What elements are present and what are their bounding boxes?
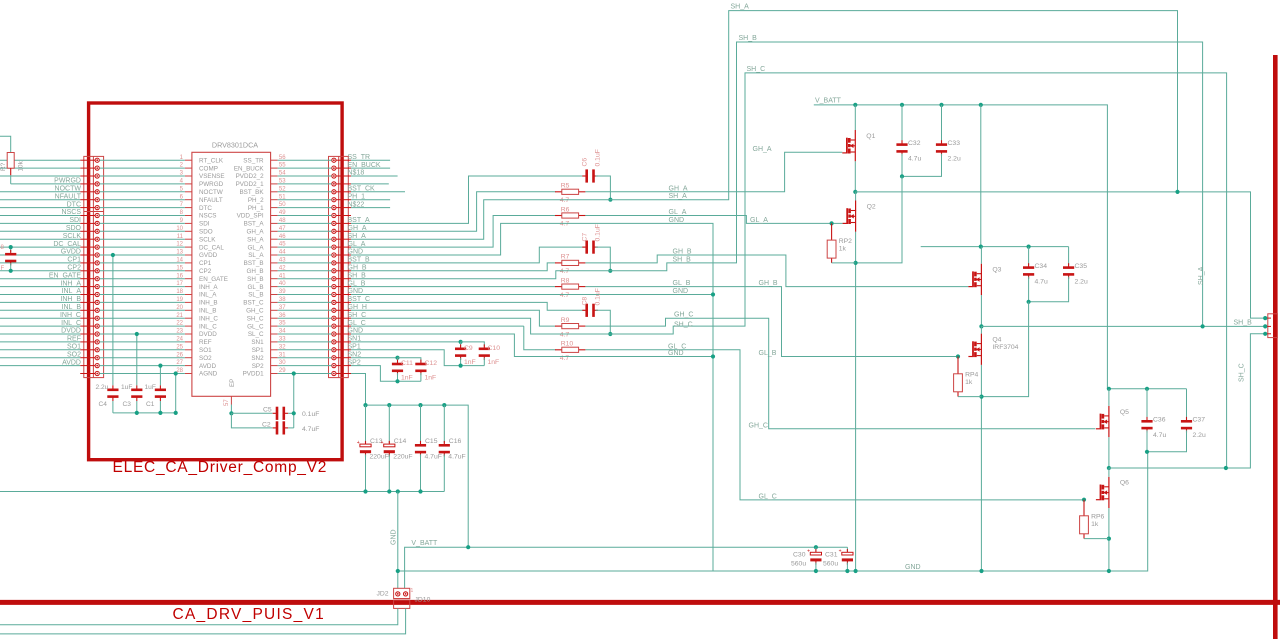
- svg-text:PWRGD: PWRGD: [54, 178, 81, 185]
- svg-text:V_BATT: V_BATT: [815, 98, 842, 105]
- svg-text:ELEC_CA_Driver_Comp_V2: ELEC_CA_Driver_Comp_V2: [113, 459, 328, 476]
- resistor R5 4.7: [555, 191, 562, 193]
- svg-text:Q5: Q5: [1120, 409, 1129, 416]
- capacitor C14 plates: [388, 441, 390, 446]
- wire EP node: [230, 405, 232, 414]
- wire stub net SS_TR: [351, 159, 390, 161]
- svg-text:1: 1: [411, 588, 414, 594]
- connector JP1 pin row 26: [80, 357, 95, 359]
- wire GL_C row: [351, 325, 524, 327]
- svg-text:SDI: SDI: [199, 221, 210, 228]
- connector JP1 pin row 15: [80, 270, 95, 272]
- wire stub net EN_BUCK: [351, 167, 390, 169]
- wire Q1 source to SH_A: [854, 161, 856, 192]
- IC pin 38 BST_C: [271, 301, 278, 303]
- wire net row25 left: [0, 349, 80, 351]
- svg-text:CP2: CP2: [199, 268, 212, 275]
- svg-text:BST_BK: BST_BK: [239, 189, 264, 196]
- svg-text:C11: C11: [401, 360, 413, 367]
- svg-text:NSCS: NSCS: [199, 213, 217, 220]
- wire JP1-23 to IC pin 23: [99, 333, 184, 335]
- capacitor C11 plates: [397, 360, 399, 365]
- IC pin 12 DC_CAL: [185, 246, 192, 248]
- connector JD2/JD10: [394, 588, 410, 598]
- wire SP2 rail: [351, 366, 421, 382]
- capacitor C?8 left edge: [10, 247, 12, 252]
- svg-text:R?: R?: [0, 162, 7, 171]
- IC pin 53 PVDD2_1: [271, 183, 278, 185]
- svg-text:GND: GND: [668, 350, 684, 357]
- resistor RP4 1k: [957, 357, 959, 374]
- capacitor C15 plates: [420, 441, 422, 446]
- wire Q4 drain: [980, 326, 982, 333]
- svg-text:4.7: 4.7: [560, 221, 570, 228]
- capacitor C? left edge plates: [10, 250, 12, 255]
- transistor Q2: [843, 201, 856, 232]
- wire net row19 left: [0, 301, 80, 303]
- svg-text:GVDD: GVDD: [199, 252, 218, 259]
- connector JP2 pin row 46: [336, 238, 351, 240]
- node Q4 source/RP4/C34gnd: [979, 395, 983, 399]
- wire RP4 bottom: [958, 396, 982, 398]
- wire Q6 drain: [1108, 468, 1110, 477]
- wire GND JD2 drop: [397, 492, 399, 589]
- wire net row21 left: [0, 317, 80, 319]
- svg-text:BST_B: BST_B: [244, 260, 264, 267]
- svg-text:AVDD: AVDD: [62, 359, 81, 366]
- wire JP1-1 to IC pin 1: [99, 159, 184, 161]
- svg-text:SL_A: SL_A: [248, 252, 264, 259]
- wire C7 to SH_B: [596, 247, 611, 271]
- svg-text:DTC: DTC: [67, 201, 81, 208]
- svg-text:4.7u: 4.7u: [1035, 279, 1048, 286]
- IC pin 34 SL_C: [271, 333, 278, 335]
- svg-text:R7: R7: [561, 254, 570, 261]
- IC pin 32 SP1: [271, 349, 278, 351]
- wire net row26 left: [0, 357, 80, 359]
- wire JP1-11 to IC pin 11: [99, 238, 184, 240]
- node EP junction: [229, 411, 233, 415]
- connector JP2 pin row 32: [336, 349, 351, 351]
- node Q1 drain: [853, 103, 857, 107]
- wire JP1-3 to IC pin 3: [99, 175, 184, 177]
- connector JP1 pin row 2: [80, 167, 95, 169]
- svg-text:GH_A: GH_A: [753, 146, 772, 153]
- capacitor C32 4.7u: [901, 105, 903, 142]
- wire GL_A to Q2 gate: [585, 216, 842, 224]
- wire Q2 source down to GND rail: [855, 232, 857, 571]
- svg-text:560u: 560u: [791, 561, 806, 568]
- node AGND tap: [174, 371, 178, 375]
- wire SH_B phase line: [981, 325, 1265, 327]
- wire net row24 left: [0, 341, 80, 343]
- connector JP2 pin row 52: [336, 191, 351, 193]
- svg-text:SP1: SP1: [252, 347, 264, 354]
- resistor R8 4.7: [555, 286, 562, 288]
- wire GND_A to rail: [351, 223, 713, 571]
- IC pin 24 REF: [185, 341, 192, 343]
- svg-text:SCLK: SCLK: [63, 233, 82, 240]
- svg-text:INH_C: INH_C: [199, 315, 218, 322]
- IC pin 49 VDD_SPI: [271, 215, 278, 217]
- node C5 right: [292, 411, 296, 415]
- node SH_B phase: [979, 324, 983, 328]
- wire JD10 bottom exits: [0, 608, 398, 624]
- svg-text:Q1: Q1: [866, 133, 875, 140]
- svg-text:R9: R9: [561, 317, 570, 324]
- IC pin 56 SS_TR: [271, 159, 278, 161]
- svg-text:4.7u: 4.7u: [1153, 432, 1166, 439]
- node C8/SH_C: [608, 332, 612, 336]
- svg-text:4.7uF: 4.7uF: [448, 454, 465, 461]
- wire JP1-21 to IC pin 21: [99, 317, 184, 319]
- resistor R9 4.7: [555, 325, 562, 327]
- connector JP1 pin row 13: [80, 254, 95, 256]
- svg-text:BST_C: BST_C: [243, 300, 264, 307]
- node GND_C: [711, 354, 715, 358]
- IC pin 7 DTC: [185, 207, 192, 209]
- wire SP1 rail: [351, 350, 484, 366]
- svg-text:NSCS: NSCS: [62, 209, 82, 216]
- capacitor C14 220uF: [387, 403, 391, 407]
- wire stub net unnamed: [351, 183, 389, 185]
- svg-text:C6: C6: [582, 158, 589, 167]
- svg-text:GND: GND: [669, 217, 685, 224]
- wire SH_A loop via top: [351, 11, 1178, 240]
- svg-text:SH_B: SH_B: [247, 276, 263, 283]
- wire net row2 left: [0, 167, 80, 169]
- svg-text:CP1: CP1: [67, 257, 81, 264]
- svg-text:EN_BUCK: EN_BUCK: [348, 162, 381, 169]
- connector JP1 pin row 5: [80, 191, 95, 193]
- svg-text:R8: R8: [561, 277, 570, 284]
- svg-text:SDI: SDI: [69, 217, 81, 224]
- wire JP1-12 to IC pin 12: [99, 246, 184, 248]
- IC pin 42 GH_B: [271, 270, 278, 272]
- wire JP1-27 to IC pin 27: [99, 365, 184, 367]
- IC pin 40 GL_B: [271, 286, 278, 288]
- wire JP1-9 to IC pin 9: [99, 222, 184, 224]
- wire net row1 left: [0, 159, 80, 161]
- wire GL_B to R8: [351, 286, 556, 288]
- IC pin 37 GH_C: [271, 309, 278, 311]
- svg-text:BST_CK: BST_CK: [348, 186, 376, 193]
- svg-text:SO1: SO1: [199, 347, 212, 354]
- svg-text:GH_A: GH_A: [246, 229, 264, 236]
- svg-text:SH_A: SH_A: [731, 4, 750, 11]
- node C11 bottom: [395, 379, 399, 383]
- wire net row6 left: [0, 199, 80, 201]
- wire SN1 to C9: [351, 341, 461, 343]
- connector JP2 pin row 45: [336, 246, 351, 248]
- connector JP2 pin row 47: [336, 230, 351, 232]
- wire JP1-24 to IC pin 24: [99, 341, 184, 343]
- node C34 top: [1027, 245, 1031, 249]
- connector JP1 pin row 14: [80, 262, 95, 264]
- wire SH_C phase line: [1109, 334, 1265, 468]
- connector JP1 pin row 6: [80, 199, 95, 201]
- IC pin 18 INL_A: [185, 294, 192, 296]
- IC pin 23 DVDD: [185, 333, 192, 335]
- svg-text:C3: C3: [123, 401, 132, 408]
- transistor Q5: [1096, 406, 1109, 437]
- wire net row8 left: [0, 215, 80, 217]
- node Q2 gnd rail: [854, 569, 858, 573]
- wire stub net N$18: [351, 175, 398, 177]
- svg-text:2.2u: 2.2u: [1193, 432, 1206, 439]
- svg-text:C34: C34: [1035, 263, 1048, 270]
- capacitor C34 4.7u: [1028, 247, 1030, 266]
- connector JP2 pin row 38: [336, 301, 351, 303]
- wire JP1-14 to IC pin 14: [99, 262, 184, 264]
- connector JP1 pin row 21: [80, 317, 95, 319]
- wire net row4 left: [11, 183, 81, 185]
- svg-text:0.1uF: 0.1uF: [302, 411, 319, 418]
- svg-text:SH_C: SH_C: [247, 315, 264, 322]
- svg-text:GL_A: GL_A: [247, 244, 264, 251]
- resistor R7 4.7: [555, 262, 562, 264]
- capacitor C15 4.7uF: [418, 403, 422, 407]
- wire GL_B to Q4 gate: [585, 287, 958, 357]
- component frame ELEC_CA_Driver_Comp_V2: [89, 103, 343, 460]
- IC pin 46 SH_A: [271, 238, 278, 240]
- capacitor C31 plates: [846, 549, 848, 554]
- connector JP1 pin row 1: [80, 159, 95, 161]
- IC pin 33 SN1: [271, 341, 278, 343]
- wire Q6 source/GND: [1108, 508, 1110, 571]
- IC pin 2 COMP: [185, 167, 192, 169]
- wire net row11 left: [0, 238, 80, 240]
- svg-text:RP4: RP4: [965, 372, 978, 379]
- capacitor C13 220uF: [363, 403, 367, 407]
- svg-text:C37: C37: [1193, 417, 1206, 424]
- svg-text:CP1: CP1: [199, 260, 212, 267]
- connector JP2 right header body: [329, 156, 349, 377]
- svg-text:SN1: SN1: [251, 339, 264, 346]
- svg-text:Q2: Q2: [867, 203, 876, 210]
- svg-text:4.7: 4.7: [560, 268, 570, 275]
- connector JP2 pin row 42: [336, 270, 351, 272]
- wire net row22 left: [0, 325, 80, 327]
- svg-text:0.1uF: 0.1uF: [595, 288, 602, 305]
- wire GND bottom rail: [398, 452, 1148, 571]
- wire GL_C to Q6 gate: [585, 350, 1084, 500]
- svg-text:220uF: 220uF: [393, 454, 412, 461]
- wire SN1 to C10: [461, 342, 485, 347]
- svg-text:GVDD: GVDD: [61, 249, 81, 256]
- svg-text:PH_2: PH_2: [248, 197, 264, 204]
- svg-text:RT_CLK: RT_CLK: [199, 157, 224, 164]
- svg-text:1nF: 1nF: [464, 359, 476, 366]
- svg-text:C14: C14: [394, 438, 407, 445]
- svg-text:RP6: RP6: [1091, 514, 1104, 521]
- wire EP to C5: [231, 412, 272, 414]
- svg-text:INL_B: INL_B: [199, 308, 217, 315]
- IC pin 39 SL_B: [271, 294, 278, 296]
- capacitor C37 2.2u: [1186, 389, 1188, 419]
- transistor Q1: [842, 130, 855, 161]
- svg-text:REF: REF: [67, 336, 81, 343]
- capacitor C3 1uF: [136, 334, 138, 385]
- node SN2/C11: [395, 356, 399, 360]
- wire GH_B jog to R7: [351, 263, 556, 271]
- node Q6 source/RP6: [1107, 537, 1111, 541]
- wire BST_C to C8: [351, 302, 585, 310]
- connector JP1 pin row 22: [80, 325, 95, 327]
- wire GND_B to collector: [351, 294, 713, 296]
- svg-text:SL_B: SL_B: [248, 292, 263, 299]
- connector JP2 pin row 48: [336, 222, 351, 224]
- svg-text:SL_C: SL_C: [248, 331, 264, 338]
- capacitor C30 plates: [815, 549, 817, 554]
- svg-text:AGND: AGND: [199, 371, 218, 378]
- svg-text:DC_CAL: DC_CAL: [53, 241, 81, 248]
- wire net row23 left: [0, 333, 80, 335]
- capacitor C33 2.2u: [941, 105, 943, 142]
- connector JP2 pin row 33: [336, 341, 351, 343]
- node V_BATT/cap rail: [466, 545, 470, 549]
- svg-text:N$22: N$22: [348, 201, 365, 208]
- capacitor C35 plates: [1068, 263, 1070, 268]
- svg-text:SH_B: SH_B: [673, 256, 692, 263]
- svg-text:4.7: 4.7: [560, 197, 570, 204]
- svg-text:1nF: 1nF: [488, 359, 500, 366]
- svg-text:GND: GND: [390, 529, 397, 545]
- svg-text:C4: C4: [99, 401, 108, 408]
- svg-text:1uF: 1uF: [121, 384, 132, 391]
- wire V_BATT bottom rail: [405, 547, 848, 588]
- IC pin 45 GL_A: [271, 246, 278, 248]
- svg-text:PH_1: PH_1: [248, 205, 264, 212]
- svg-text:JD10: JD10: [415, 597, 431, 604]
- wire V_BATT cap top rail: [366, 405, 469, 547]
- connector JP2 pin row 54: [336, 175, 351, 177]
- svg-text:Q3: Q3: [992, 267, 1001, 274]
- svg-text:INH_B: INH_B: [60, 296, 81, 303]
- capacitor C9 plates: [460, 344, 462, 349]
- connector JP2 pin row 35: [336, 325, 351, 327]
- IC pin 29 PVDD1: [271, 373, 278, 375]
- wire C8 to SH_C: [596, 310, 611, 334]
- wire GL_A jog to R6: [351, 216, 556, 248]
- connector JP1 pin row 23: [80, 333, 95, 335]
- node Q2 source/RP2: [854, 261, 858, 265]
- svg-text:NFAULT: NFAULT: [199, 197, 223, 204]
- svg-text:NOCTW: NOCTW: [199, 189, 223, 196]
- svg-text:DRV8301DCA: DRV8301DCA: [212, 141, 258, 150]
- capacitor C33 plates: [941, 140, 943, 145]
- node Q6 gnd rail: [1107, 569, 1111, 573]
- connector JP2 pin row 49: [336, 215, 351, 217]
- IC pin 54 PVDD2_2: [271, 175, 278, 177]
- wire net row17 left: [0, 286, 80, 288]
- capacitor C30 560u: [814, 545, 818, 549]
- svg-text:RP2: RP2: [839, 238, 852, 245]
- wire JP1-15 to IC pin 15: [99, 270, 184, 272]
- svg-text:R6: R6: [561, 206, 570, 213]
- wire net row12 left: [0, 246, 80, 248]
- IC pin 20 INL_B: [185, 309, 192, 311]
- wire SH_B loop via top: [351, 42, 1203, 326]
- connector JP2 pin row 53: [336, 183, 351, 185]
- connector JP2 pin row 37: [336, 309, 351, 311]
- svg-text:C32: C32: [908, 140, 921, 147]
- wire JP1-28 to IC pin 28: [99, 373, 184, 375]
- svg-text:GH_C: GH_C: [246, 308, 264, 315]
- svg-text:INH_A: INH_A: [60, 280, 81, 287]
- svg-text:PWRGD: PWRGD: [199, 181, 224, 188]
- connector JP1 pin row 7: [80, 207, 95, 209]
- node DVDD/C3: [135, 332, 139, 336]
- svg-text:GH_C: GH_C: [749, 422, 768, 429]
- wire GND_C to collector: [351, 334, 713, 357]
- svg-text:SH_C: SH_C: [1239, 363, 1246, 382]
- node Q3 drain: [979, 245, 983, 249]
- capacitor C34 plates: [1028, 263, 1030, 268]
- IC pin 55 EN_BUCK: [271, 167, 278, 169]
- svg-text:DC_CAL: DC_CAL: [199, 244, 224, 251]
- svg-text:F: F: [1, 266, 5, 272]
- svg-text:V_BATT: V_BATT: [411, 540, 438, 547]
- wire net row20 left: [0, 309, 80, 311]
- IC pin 17 INH_A: [185, 286, 192, 288]
- IC pin 11 SCLK: [185, 238, 192, 240]
- node GVDD/C4: [111, 253, 115, 257]
- wire JP1-22 to IC pin 22: [99, 325, 184, 327]
- wire BST_B to C7: [351, 247, 585, 263]
- svg-text:1k: 1k: [839, 245, 847, 252]
- svg-text:VSENSE: VSENSE: [199, 173, 225, 180]
- connector JP1 pin row 28: [80, 373, 95, 375]
- wire Q5 source to SH_C: [1108, 437, 1110, 468]
- node C32 bottom: [900, 174, 904, 178]
- svg-text:PVDD1: PVDD1: [243, 371, 264, 378]
- wire RP6 bottom: [1084, 538, 1109, 540]
- IC pin 6 NFAULT: [185, 199, 192, 201]
- svg-text:0.1uF: 0.1uF: [595, 149, 602, 166]
- node RP2 top: [830, 221, 834, 225]
- connector motor phases right edge: [1268, 314, 1278, 338]
- node SH_C top link: [1224, 466, 1228, 470]
- svg-text:SH_B: SH_B: [739, 35, 758, 42]
- sheet frame right line: [1273, 55, 1278, 639]
- wire net row7 left: [0, 207, 80, 209]
- svg-text:C16: C16: [449, 438, 462, 445]
- svg-text:1nF: 1nF: [425, 374, 437, 381]
- IC pin 19 INH_B: [185, 301, 192, 303]
- IC pin 41 SH_B: [271, 278, 278, 280]
- resistor R? 10k: [7, 153, 14, 169]
- wire C5/C2 to PVDD1: [293, 374, 295, 428]
- wire GH_A to Q1 gate: [585, 152, 842, 192]
- resistor RP2 1k: [831, 223, 833, 240]
- svg-text:DTC: DTC: [199, 205, 212, 212]
- svg-text:C36: C36: [1153, 417, 1166, 424]
- svg-text:BST_A: BST_A: [244, 221, 265, 228]
- transistor Q4: [968, 334, 981, 365]
- node Q4 gnd rail: [979, 569, 983, 573]
- node C36 bottom: [1145, 450, 1149, 454]
- capacitor C35 2.2u: [1068, 247, 1070, 266]
- svg-text:SH_A: SH_A: [1198, 266, 1205, 285]
- svg-text:GL_C: GL_C: [247, 323, 264, 330]
- wire stub net N$22: [351, 207, 390, 209]
- wire V_BATT top rail: [814, 105, 1108, 389]
- capacitor C16 plates: [443, 441, 445, 446]
- node GND_B: [711, 292, 715, 296]
- svg-text:1k: 1k: [965, 379, 973, 386]
- wire GND rail left: [0, 491, 444, 493]
